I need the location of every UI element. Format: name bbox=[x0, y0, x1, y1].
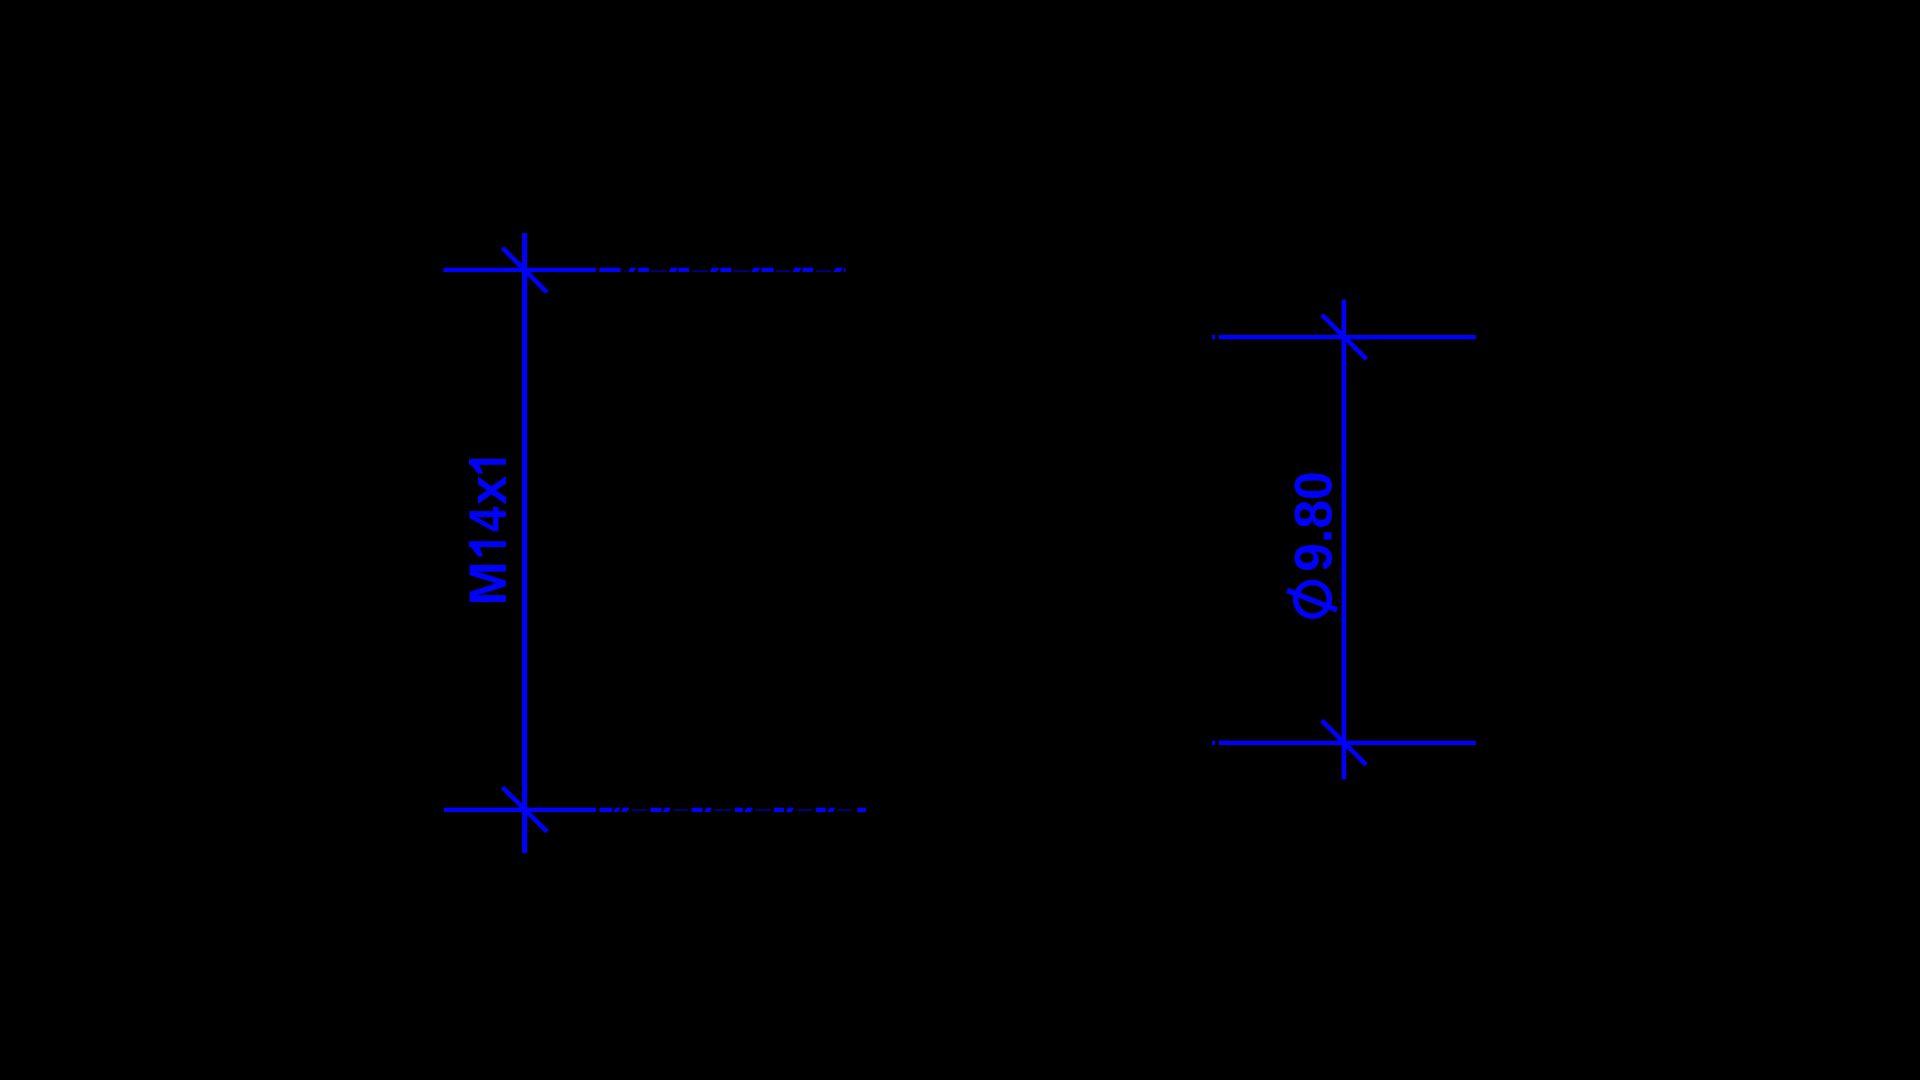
svg-text:M: M bbox=[459, 561, 518, 605]
svg-text:x: x bbox=[459, 475, 518, 505]
svg-text:4: 4 bbox=[459, 506, 518, 532]
svg-text:9.80: 9.80 bbox=[1285, 471, 1344, 571]
